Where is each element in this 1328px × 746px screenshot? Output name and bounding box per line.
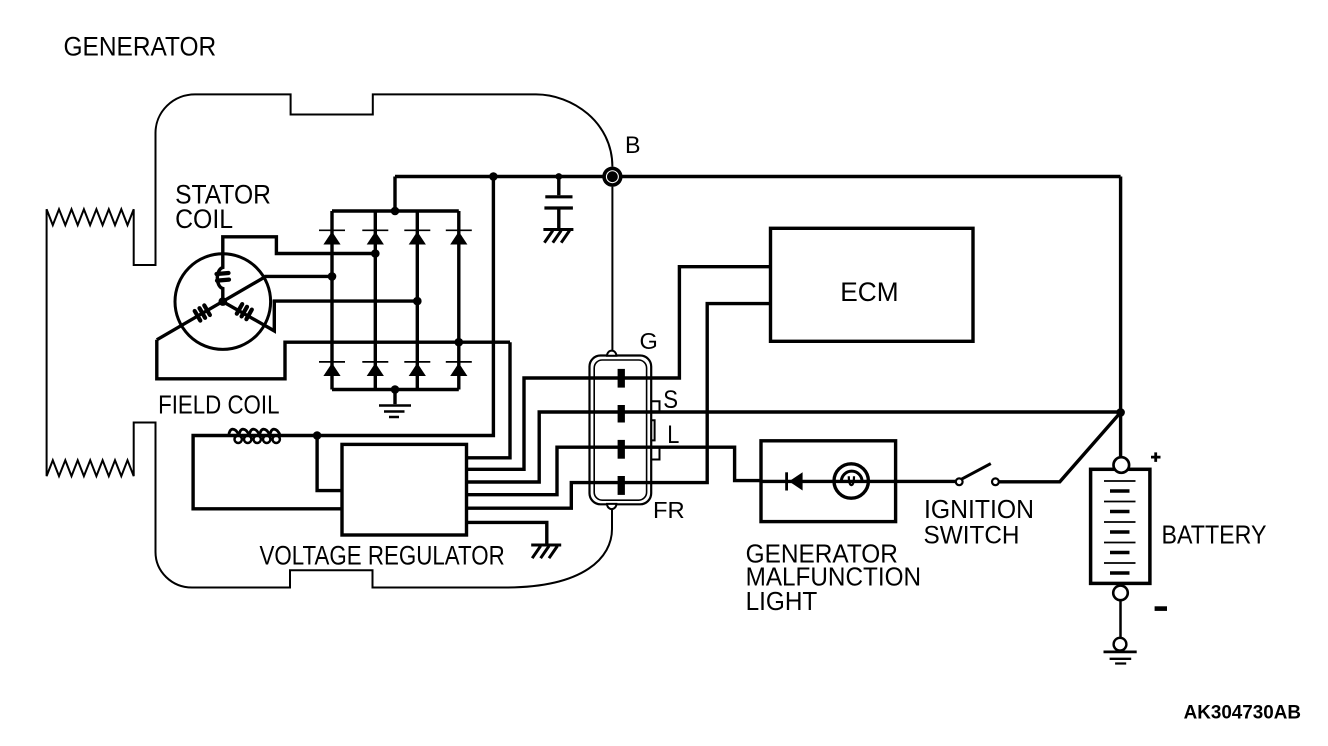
svg-text:L: L (667, 422, 679, 449)
svg-text:LIGHT: LIGHT (746, 588, 818, 616)
svg-text:AK304730AB: AK304730AB (1184, 701, 1301, 723)
svg-text:ECM: ECM (840, 277, 898, 307)
svg-text:IGNITION: IGNITION (924, 494, 1034, 524)
svg-text:BATTERY: BATTERY (1162, 519, 1267, 549)
svg-text:B: B (625, 132, 641, 159)
svg-text:VOLTAGE REGULATOR: VOLTAGE REGULATOR (260, 541, 505, 571)
svg-text:SWITCH: SWITCH (924, 521, 1020, 549)
svg-text:FR: FR (653, 497, 685, 523)
svg-text:G: G (640, 328, 658, 354)
svg-text:FIELD COIL: FIELD COIL (158, 390, 279, 420)
svg-text:GENERATOR: GENERATOR (64, 32, 217, 62)
svg-text:S: S (663, 387, 678, 414)
svg-text:COIL: COIL (175, 204, 233, 234)
